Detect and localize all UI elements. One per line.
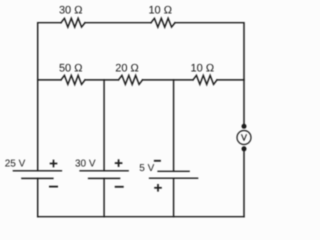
svg-text:25 V: 25 V	[5, 158, 26, 169]
wire row2: 10 ohm to right vertical junction	[217, 79, 244, 81]
battery V1 25V plates	[13, 171, 61, 179]
wire row2: between 50 ohm and 20 ohm	[85, 79, 119, 81]
voltmeter terminal dot bottom	[242, 146, 247, 151]
voltmeter terminal dot top	[242, 124, 247, 129]
svg-text:50 Ω: 50 Ω	[59, 63, 83, 75]
resistor R4 20 ohm	[119, 75, 143, 84]
svg-text:30 V: 30 V	[75, 158, 96, 169]
resistor R2 10 ohm (top)	[151, 18, 175, 27]
minus sign of 25V battery	[49, 186, 58, 188]
resistor R1 30 ohm	[61, 18, 85, 27]
wire top: left corner to 30ohm	[38, 23, 61, 80]
plus sign of 25V battery	[50, 160, 58, 168]
plus sign of 5V battery (bottom)	[154, 184, 162, 192]
wire top: between 30 ohm and 10 ohm	[85, 22, 151, 24]
wire: 5V battery to bottom wire	[173, 178, 175, 217]
svg-text:10 Ω: 10 Ω	[191, 63, 215, 75]
svg-text:20 Ω: 20 Ω	[115, 63, 139, 75]
wire: 5V branch from row2 down to battery	[173, 80, 175, 171]
battery V2 30V plates	[80, 171, 128, 179]
voltmeter M1 circle	[237, 131, 251, 145]
wire: bottom rail	[38, 216, 244, 218]
battery V3 5V plates	[150, 171, 198, 178]
wire row2: left junction to 50 ohm	[38, 79, 61, 81]
wire: left branch down to 25V battery top plate	[37, 80, 39, 171]
svg-text:10 Ω: 10 Ω	[148, 5, 172, 17]
voltmeter letter V	[242, 135, 247, 141]
plus sign of 30V battery	[115, 159, 123, 167]
wire: 25V battery bottom plate to bottom wire	[37, 178, 39, 216]
wire: right side voltmeter bottom to bottom-right corner	[243, 149, 245, 217]
wire top: 10 ohm to top-right corner, down right side to voltmeter	[175, 23, 244, 127]
svg-text:30 Ω: 30 Ω	[59, 5, 83, 17]
wire: 30V branch from row2 down to battery	[103, 80, 105, 171]
wire row2: between 20 ohm and 10 ohm	[143, 79, 194, 81]
wire: 30V battery to bottom wire	[103, 178, 105, 216]
minus sign of 30V battery	[115, 186, 124, 188]
resistor R5 10 ohm (row2)	[193, 75, 217, 84]
resistor R3 50 ohm	[61, 75, 85, 84]
svg-text:5 V: 5 V	[139, 163, 154, 174]
minus sign of 5V battery (top)	[154, 160, 161, 162]
